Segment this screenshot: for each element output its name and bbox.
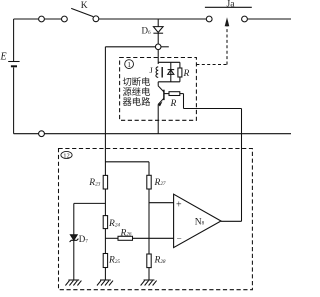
flyback diode branch wire bbox=[170, 62, 172, 82]
damping resistor R box bbox=[178, 68, 182, 77]
battery E short plate bbox=[11, 65, 17, 67]
relay parallel group bottom rail bbox=[158, 81, 180, 83]
contact Ja left circle bbox=[206, 16, 212, 22]
resistor R26 box bbox=[118, 236, 133, 240]
wire zener tap horizontal bbox=[74, 202, 106, 204]
damping resistor R branch wire bottom bbox=[179, 77, 181, 82]
wire R26 to op-amp minus rail bbox=[133, 237, 174, 239]
wire top rail right segment bbox=[247, 18, 291, 20]
svg-text:R24: R24 bbox=[108, 219, 120, 229]
svg-text:Ja: Ja bbox=[227, 0, 236, 9]
circled 12 bbox=[61, 151, 72, 159]
wire node to left corner bbox=[105, 46, 155, 48]
wire left feed vertical into box 12 bbox=[104, 47, 106, 176]
wire zener top lead bbox=[73, 203, 75, 234]
svg-text:R: R bbox=[183, 69, 190, 79]
resistor R25 box bbox=[103, 254, 107, 268]
wire op-amp output bbox=[221, 220, 242, 222]
terminal circle top plug left bbox=[39, 16, 45, 22]
ground under D7 bbox=[65, 280, 81, 286]
svg-text:12: 12 bbox=[63, 153, 70, 160]
wire node right stub bbox=[161, 46, 169, 48]
dashed link relay to contact horizontal bbox=[196, 64, 227, 66]
contact Ja bar bbox=[205, 6, 252, 8]
wire battery top lead bbox=[13, 19, 15, 61]
wire top rail middle bbox=[99, 18, 207, 20]
svg-text:J: J bbox=[150, 65, 154, 75]
svg-text:K: K bbox=[81, 1, 88, 11]
wire top rail left segment from battery to plug terminal bbox=[14, 18, 39, 20]
svg-text:R26: R26 bbox=[120, 228, 132, 238]
wire D6 cathode lead bbox=[157, 33, 159, 44]
svg-text:1: 1 bbox=[127, 60, 131, 69]
damping resistor R branch wire top bbox=[179, 62, 181, 68]
battery E long plate bbox=[8, 61, 19, 63]
ground under R25 bbox=[97, 280, 113, 286]
wire emitter vertical to bottom rail bbox=[157, 104, 159, 133]
wire D6 anode lead bbox=[157, 19, 159, 27]
op-amp N8 triangle bbox=[174, 194, 221, 247]
wire R27 top lead bbox=[148, 162, 150, 176]
wire base drive horizontal bbox=[184, 108, 242, 110]
svg-text:R23: R23 bbox=[88, 178, 100, 188]
flyback diode symbol bbox=[168, 70, 175, 75]
ground under R28 bbox=[141, 280, 157, 286]
dashed box 1 relay circuit bbox=[120, 58, 197, 121]
box12 top rail bbox=[105, 161, 149, 163]
wire drive vertical down to op-amp output bbox=[241, 109, 243, 222]
svg-text:器电路: 器电路 bbox=[123, 96, 152, 108]
transistor Q base bar bbox=[163, 90, 165, 100]
svg-text:R28: R28 bbox=[154, 256, 166, 266]
resistor R27 box bbox=[147, 175, 151, 189]
resistor R23 box bbox=[103, 175, 107, 189]
node circle junction bbox=[155, 44, 161, 50]
wire bottom rail left segment bbox=[14, 133, 39, 135]
zener diode D7 bbox=[70, 235, 79, 242]
relay coil J bumps bbox=[156, 67, 158, 78]
wire battery bottom lead bbox=[13, 68, 15, 134]
terminal circle bottom plug bbox=[39, 131, 45, 137]
wire plus input rail bbox=[149, 202, 174, 204]
svg-text:R25: R25 bbox=[108, 256, 120, 266]
svg-text:+: + bbox=[176, 200, 182, 211]
wire base to resistor bbox=[165, 93, 170, 95]
transistor Q collector diagonal bbox=[158, 86, 164, 92]
wire R24 to R26 tap to R25 bbox=[104, 229, 106, 254]
arrowhead to Ja bbox=[225, 17, 230, 26]
wire R28 to ground bbox=[148, 268, 150, 280]
wire collector lead bbox=[157, 82, 159, 86]
resistor R28 box bbox=[147, 254, 151, 268]
resistor R24 box bbox=[103, 216, 107, 229]
svg-text:E: E bbox=[0, 52, 7, 63]
wire base resistor to corner bbox=[180, 93, 184, 95]
relay coil core bar bbox=[161, 67, 163, 78]
wire R26 left lead bbox=[105, 237, 118, 239]
wire R25 to ground bbox=[104, 268, 106, 281]
svg-text:切断电: 切断电 bbox=[123, 76, 151, 88]
svg-text:源继电: 源继电 bbox=[123, 86, 151, 98]
dashed link vertical to Ja bbox=[226, 27, 228, 65]
wire base drive vertical bbox=[183, 94, 185, 109]
wire zener bottom lead bbox=[73, 240, 75, 280]
contact Ja right circle bbox=[242, 16, 248, 22]
switch K blade bbox=[71, 8, 93, 16]
wire relay branch vertical below node bbox=[157, 50, 159, 64]
svg-text:R27: R27 bbox=[154, 178, 166, 188]
diode D6 bbox=[153, 27, 163, 34]
relay parallel group top rail bbox=[158, 61, 180, 63]
dashed box 12 comparator circuit bbox=[59, 149, 253, 290]
transistor Q emitter diagonal bbox=[158, 98, 164, 104]
wire bottom rail right segment bbox=[44, 133, 291, 135]
svg-text:−: − bbox=[177, 233, 182, 243]
terminal circle top plug right bbox=[62, 16, 68, 22]
wire R23 to zener tap bbox=[104, 189, 106, 216]
switch K contact circle bbox=[93, 16, 99, 22]
circled 1 bbox=[125, 60, 134, 69]
base resistor R box bbox=[169, 92, 180, 96]
transistor Q emitter arrowhead bbox=[158, 101, 163, 106]
wire R27 bottom to plus tap and down to R28 bbox=[148, 189, 150, 254]
svg-text:D7: D7 bbox=[79, 234, 89, 244]
svg-text:D6: D6 bbox=[142, 26, 152, 36]
wire between plug terminals bbox=[44, 18, 61, 20]
svg-text:R: R bbox=[170, 99, 177, 109]
